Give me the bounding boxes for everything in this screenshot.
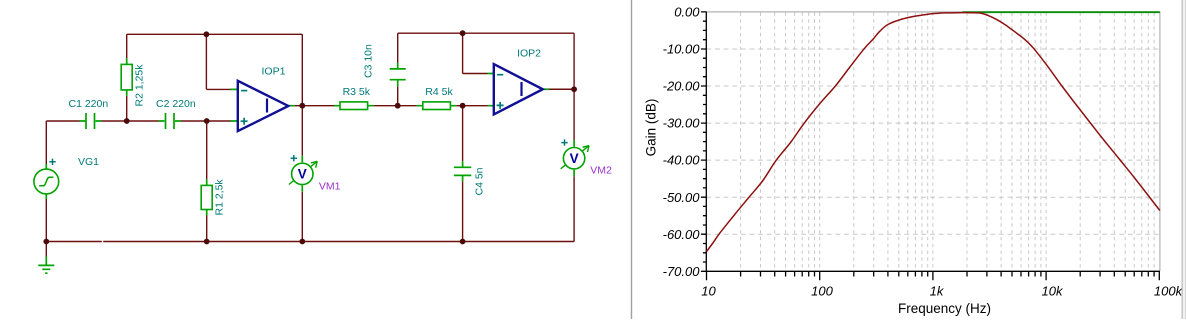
svg-text:100: 100 <box>811 284 833 299</box>
svg-text:IOP2: IOP2 <box>517 48 541 60</box>
svg-text:C4 5n: C4 5n <box>474 167 486 195</box>
svg-text:0.00: 0.00 <box>674 5 700 20</box>
svg-text:VM1: VM1 <box>319 181 341 193</box>
svg-text:-50.00: -50.00 <box>663 190 701 205</box>
svg-text:10: 10 <box>701 284 716 299</box>
svg-text:-60.00: -60.00 <box>663 227 701 242</box>
svg-text:C2 220n: C2 220n <box>156 98 196 110</box>
svg-text:-20.00: -20.00 <box>663 79 701 94</box>
svg-text:C3 10n: C3 10n <box>363 44 375 78</box>
svg-text:-70.00: -70.00 <box>663 264 701 279</box>
svg-text:1k: 1k <box>930 284 945 299</box>
svg-text:-30.00: -30.00 <box>663 116 701 131</box>
svg-text:V: V <box>570 151 579 166</box>
svg-text:R3 5k: R3 5k <box>343 86 371 98</box>
svg-text:R1 2,5k: R1 2,5k <box>213 179 225 216</box>
svg-text:Gain (dB): Gain (dB) <box>644 99 659 157</box>
svg-text:VM2: VM2 <box>590 165 612 177</box>
svg-text:V: V <box>298 167 307 182</box>
svg-text:C1 220n: C1 220n <box>69 98 109 110</box>
svg-text:10k: 10k <box>1042 284 1064 299</box>
svg-text:100k: 100k <box>1154 284 1184 299</box>
svg-text:IOP1: IOP1 <box>262 66 286 78</box>
svg-text:R4 5k: R4 5k <box>425 86 453 98</box>
svg-text:-40.00: -40.00 <box>663 153 701 168</box>
svg-text:-10.00: -10.00 <box>663 42 701 57</box>
svg-text:VG1: VG1 <box>78 156 99 168</box>
svg-text:R2 1,25k: R2 1,25k <box>133 64 145 107</box>
svg-text:Frequency (Hz): Frequency (Hz) <box>898 301 991 316</box>
